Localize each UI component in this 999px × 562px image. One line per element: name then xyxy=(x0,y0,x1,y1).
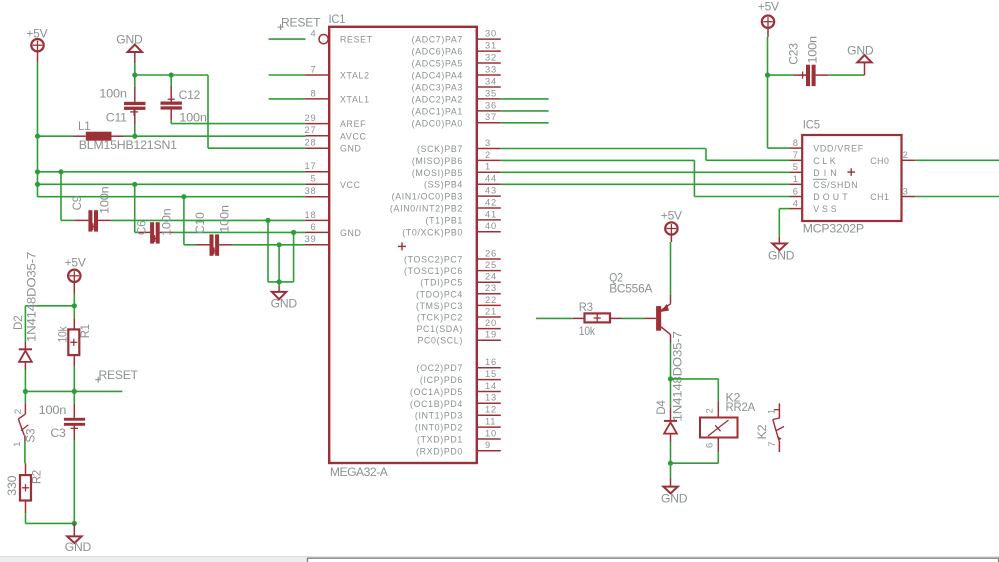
svg-text:16: 16 xyxy=(485,357,497,367)
svg-text:C11: C11 xyxy=(106,111,128,125)
wire VCC row38 xyxy=(38,196,306,198)
node junction collector/relay xyxy=(668,376,673,381)
svg-text:CS/SHDN: CS/SHDN xyxy=(813,180,858,190)
svg-text:(INT0)PD2: (INT0)PD2 xyxy=(415,423,463,433)
svg-text:13: 13 xyxy=(485,393,497,403)
svg-text:R3: R3 xyxy=(579,300,593,314)
svg-text:GND: GND xyxy=(65,540,92,554)
wire XTAL2 stub xyxy=(269,74,306,76)
ground GND (bottom left) xyxy=(65,523,92,554)
svg-text:15: 15 xyxy=(485,369,497,379)
svg-text:CH0: CH0 xyxy=(870,156,889,166)
node junction C23 xyxy=(765,73,770,78)
svg-text:VCC: VCC xyxy=(340,180,361,190)
svg-text:41: 41 xyxy=(485,209,497,219)
svg-text:14: 14 xyxy=(485,381,497,391)
diode D4 1N4148DO35-7 xyxy=(654,331,684,463)
svg-text:(TOSC1)PC6: (TOSC1)PC6 xyxy=(404,266,463,276)
svg-text:(INT1)PD3: (INT1)PD3 xyxy=(415,411,463,421)
svg-text:XTAL1: XTAL1 xyxy=(340,94,370,104)
svg-text:C6: C6 xyxy=(134,220,148,235)
svg-text:36: 36 xyxy=(485,100,497,110)
svg-text:(ADC7)PA7: (ADC7)PA7 xyxy=(412,35,463,45)
svg-text:(TCK)PC2: (TCK)PC2 xyxy=(417,313,463,323)
svg-text:(T1)PB1: (T1)PB1 xyxy=(425,215,463,225)
capacitor C9 xyxy=(61,172,306,232)
svg-text:GND: GND xyxy=(847,43,874,57)
svg-text:100n: 100n xyxy=(806,36,820,64)
svg-text:1: 1 xyxy=(12,441,22,447)
node junction C11/AVCC xyxy=(132,134,137,139)
inductor L1 BLM15HB121SN1 xyxy=(74,119,178,152)
svg-text:GND: GND xyxy=(661,491,688,505)
svg-text:(ICP)PD6: (ICP)PD6 xyxy=(420,375,463,385)
svg-text:XTAL2: XTAL2 xyxy=(340,71,370,81)
svg-text:(ADC5)PA5: (ADC5)PA5 xyxy=(412,59,463,69)
svg-text:R2: R2 xyxy=(30,470,44,484)
ground GND (top, mirrored) xyxy=(116,33,143,63)
svg-text:C23: C23 xyxy=(786,43,800,65)
svg-text:GND: GND xyxy=(340,144,362,154)
svg-text:3: 3 xyxy=(903,186,909,196)
svg-text:32: 32 xyxy=(485,52,497,62)
svg-text:31: 31 xyxy=(485,41,497,51)
transistor Q2 BC556A xyxy=(609,271,670,344)
svg-text:C3: C3 xyxy=(50,426,66,440)
svg-text:27: 27 xyxy=(305,125,317,135)
svg-text:10k: 10k xyxy=(56,325,70,342)
svg-text:100n: 100n xyxy=(99,86,127,100)
svg-text:100n: 100n xyxy=(179,111,207,125)
wire +5V down to IC5 VDD xyxy=(768,37,790,148)
svg-text:BC556A: BC556A xyxy=(609,282,652,296)
svg-text:25: 25 xyxy=(485,260,497,270)
wire to D2 xyxy=(25,306,74,342)
svg-text:GND: GND xyxy=(116,33,143,47)
svg-text:CLK: CLK xyxy=(813,156,836,166)
node RESET label (bottom) xyxy=(95,368,138,383)
scrollbar strip xyxy=(0,557,999,562)
svg-text:(TDO)PC4: (TDO)PC4 xyxy=(416,289,463,299)
svg-text:IC1: IC1 xyxy=(329,12,346,26)
node junction C3/gnd xyxy=(72,521,77,526)
svg-text:S3: S3 xyxy=(24,428,38,443)
capacitor C3 xyxy=(39,391,85,523)
svg-text:(ADC4)PA4: (ADC4)PA4 xyxy=(412,71,463,81)
svg-text:38: 38 xyxy=(305,186,317,196)
svg-text:(OC1A)PD5: (OC1A)PD5 xyxy=(410,387,463,397)
op-amp U_IC5 adc IC5 MCP3202P xyxy=(790,118,916,236)
wire VCC row17 xyxy=(38,171,306,173)
resistor R3 10k xyxy=(536,300,645,338)
diode D2 1N4148DO35-7 xyxy=(11,251,39,391)
capacitor C23 xyxy=(768,36,865,86)
svg-text:(OC2)PD7: (OC2)PD7 xyxy=(417,363,464,373)
switch S3 xyxy=(12,391,38,463)
svg-text:43: 43 xyxy=(485,186,497,196)
node junction row18/gnd xyxy=(265,218,270,223)
svg-text:GND: GND xyxy=(340,228,362,238)
svg-text:+5V: +5V xyxy=(65,256,86,270)
svg-text:2: 2 xyxy=(705,407,715,413)
svg-text:D2: D2 xyxy=(11,315,25,330)
svg-text:29: 29 xyxy=(305,113,317,123)
svg-text:(SCK)PB7: (SCK)PB7 xyxy=(417,144,463,154)
svg-text:IC5: IC5 xyxy=(803,118,820,132)
svg-text:(AIN1/OC0)PB3: (AIN1/OC0)PB3 xyxy=(392,192,463,202)
wire RESET row xyxy=(25,390,122,392)
svg-text:17: 17 xyxy=(305,161,317,171)
svg-text:+5V: +5V xyxy=(758,0,779,13)
wire GND top to C11/C12 xyxy=(134,63,136,75)
svg-text:PC0(SCL): PC0(SCL) xyxy=(417,336,463,346)
wire MISO to IC5 DOUT xyxy=(501,160,790,196)
svg-text:C9: C9 xyxy=(70,195,84,210)
svg-text:(ADC2)PA2: (ADC2)PA2 xyxy=(412,94,463,104)
svg-text:(OC1B)PD4: (OC1B)PD4 xyxy=(410,399,463,409)
svg-text:21: 21 xyxy=(485,306,497,316)
supply +5V (reset) xyxy=(65,256,86,294)
svg-text:7: 7 xyxy=(767,441,777,447)
svg-text:AREF: AREF xyxy=(340,119,366,129)
svg-text:100n: 100n xyxy=(39,403,66,417)
svg-text:8: 8 xyxy=(311,88,317,98)
wire CH0 out xyxy=(915,159,999,161)
svg-text:18: 18 xyxy=(305,210,317,220)
svg-text:(MISO)PB6: (MISO)PB6 xyxy=(412,156,463,166)
node junction +5V/VCC5 xyxy=(35,182,40,187)
node junction +5V/VCC17 xyxy=(35,169,40,174)
svg-text:42: 42 xyxy=(485,197,497,207)
svg-text:C12: C12 xyxy=(179,88,201,102)
node junction gnd bundle xyxy=(277,279,282,284)
svg-text:(TOSC2)PC7: (TOSC2)PC7 xyxy=(404,255,463,265)
svg-text:(ADC1)PA1: (ADC1)PA1 xyxy=(412,106,463,116)
svg-text:22: 22 xyxy=(485,295,497,305)
svg-text:1: 1 xyxy=(767,408,777,414)
svg-text:(ADC0)PA0: (ADC0)PA0 xyxy=(412,118,463,128)
svg-text:3: 3 xyxy=(485,138,491,148)
node junction C12 top xyxy=(169,72,174,77)
svg-text:RESET: RESET xyxy=(340,35,373,45)
svg-text:7: 7 xyxy=(793,150,799,160)
svg-text:RR2A: RR2A xyxy=(726,400,756,414)
wire VSS to gnd xyxy=(779,209,789,237)
svg-text:(RXD)PD0: (RXD)PD0 xyxy=(416,446,463,456)
ground GND (below MCU) xyxy=(271,282,298,311)
svg-text:4: 4 xyxy=(793,198,799,208)
node junction +5V/AVCC xyxy=(35,134,40,139)
wire C12 to AREF pin29 xyxy=(171,123,305,125)
svg-text:5: 5 xyxy=(793,162,799,172)
svg-text:33: 33 xyxy=(485,64,497,74)
switch K2 contact xyxy=(755,403,784,452)
svg-text:(ADC3)PA3: (ADC3)PA3 xyxy=(412,83,463,93)
svg-text:+5V: +5V xyxy=(661,209,682,223)
svg-text:C10: C10 xyxy=(193,212,207,234)
svg-text:12: 12 xyxy=(485,405,497,415)
svg-text:26: 26 xyxy=(485,248,497,258)
resistor R2 330 xyxy=(5,463,44,523)
wire AVCC left segment xyxy=(38,135,74,137)
wire RESET to pin4 xyxy=(269,38,306,40)
svg-text:9: 9 xyxy=(485,440,491,450)
wire AVCC to pin27 xyxy=(124,135,306,137)
ground GND (relay) xyxy=(661,463,688,505)
supply +5V (top right) xyxy=(758,0,779,37)
op-amp U_IC1 microcontroller IC1 MEGA32-A xyxy=(305,12,501,479)
svg-text:39: 39 xyxy=(305,234,317,244)
supply +5V (top left) xyxy=(26,27,47,63)
svg-text:37: 37 xyxy=(485,112,497,122)
wire gnd bus down to pin28 xyxy=(208,75,306,148)
svg-text:100n: 100n xyxy=(98,187,112,215)
svg-text:DIN: DIN xyxy=(813,168,837,178)
resistor R1 10k xyxy=(56,306,93,392)
node junction C11 top xyxy=(132,72,137,77)
node junction R1/reset row xyxy=(72,389,77,394)
svg-text:(AIN0/INT2)PB2: (AIN0/INT2)PB2 xyxy=(390,204,463,214)
svg-text:23: 23 xyxy=(485,283,497,293)
svg-text:L1: L1 xyxy=(78,119,91,133)
node RESET label (top) xyxy=(278,16,322,31)
svg-text:(TMS)PC3: (TMS)PC3 xyxy=(416,301,463,311)
svg-text:+5V: +5V xyxy=(26,27,47,41)
svg-text:44: 44 xyxy=(485,174,497,184)
wire PA2 pin35 xyxy=(501,98,549,100)
node junction row6/gnd xyxy=(291,230,296,235)
svg-text:19: 19 xyxy=(485,330,497,340)
wire bottom gnd row xyxy=(26,522,75,524)
svg-text:6: 6 xyxy=(311,222,317,232)
svg-text:2: 2 xyxy=(485,150,491,160)
node junction row39/gnd xyxy=(277,242,282,247)
wire MOSI to IC5 DIN xyxy=(501,171,790,173)
svg-text:R1: R1 xyxy=(78,324,92,338)
svg-text:PC1(SDA): PC1(SDA) xyxy=(417,324,464,334)
svg-text:MEGA32-A: MEGA32-A xyxy=(330,465,388,479)
svg-text:11: 11 xyxy=(485,417,496,427)
svg-text:MCP3202P: MCP3202P xyxy=(803,222,864,236)
svg-text:35: 35 xyxy=(485,88,497,98)
wire top gnd bus xyxy=(135,74,208,76)
svg-text:100n: 100n xyxy=(217,205,231,233)
relay K2 RR2A coil xyxy=(671,379,756,463)
svg-text:20: 20 xyxy=(485,318,497,328)
svg-text:GND: GND xyxy=(271,297,298,311)
svg-text:330: 330 xyxy=(5,475,19,496)
svg-text:(TXD)PD1: (TXD)PD1 xyxy=(417,435,463,445)
node junction reset top xyxy=(72,303,77,308)
svg-text:D4: D4 xyxy=(654,400,668,415)
svg-text:2: 2 xyxy=(13,408,23,414)
node junction D2/reset row xyxy=(23,389,28,394)
svg-text:7: 7 xyxy=(311,64,317,74)
svg-text:10k: 10k xyxy=(579,324,596,338)
svg-text:1: 1 xyxy=(793,174,799,184)
svg-text:(MOSI)PB5: (MOSI)PB5 xyxy=(412,168,463,178)
svg-text:30: 30 xyxy=(485,29,497,39)
wire Q2 collector down xyxy=(670,343,672,379)
node junction row5/C6 xyxy=(132,182,137,187)
svg-text:5: 5 xyxy=(311,174,317,184)
wire +5V rail vertical xyxy=(37,62,39,197)
ground GND (near C23, mirrored) xyxy=(847,43,874,75)
svg-text:K2: K2 xyxy=(755,424,769,439)
node junction row38/C10 xyxy=(181,194,186,199)
svg-text:(SS)PB4: (SS)PB4 xyxy=(424,180,463,190)
svg-text:(ADC6)PA6: (ADC6)PA6 xyxy=(412,47,463,57)
svg-text:2: 2 xyxy=(903,150,909,160)
svg-text:10: 10 xyxy=(485,428,497,438)
wire VCC row5 xyxy=(38,183,306,185)
wire SCK to IC5 CLK xyxy=(501,149,790,161)
wire CH1 out xyxy=(915,196,999,198)
wire SS to IC5 CS xyxy=(501,183,790,185)
svg-text:6: 6 xyxy=(705,442,715,448)
node junction row17/C9 xyxy=(58,169,63,174)
svg-text:VDD/VREF: VDD/VREF xyxy=(813,144,864,154)
wire +5V reset down xyxy=(73,294,75,306)
svg-text:(T0/XCK)PB0: (T0/XCK)PB0 xyxy=(402,227,463,237)
svg-text:6: 6 xyxy=(793,186,799,196)
capacitor C6 xyxy=(134,184,305,243)
svg-text:40: 40 xyxy=(485,221,497,231)
svg-text:4: 4 xyxy=(311,29,317,39)
svg-text:CH1: CH1 xyxy=(870,192,889,202)
wire XTAL1 stub xyxy=(269,98,306,100)
supply +5V (Q2) xyxy=(661,209,682,243)
svg-text:(TDI)PC5: (TDI)PC5 xyxy=(420,278,463,288)
wire PA1 pin36 xyxy=(501,110,549,112)
wire gnd bundle xyxy=(268,220,294,282)
capacitor C11 xyxy=(99,75,145,136)
wire PA0 pin37 xyxy=(501,122,549,124)
capacitor C12 xyxy=(161,75,207,125)
svg-text:AVCC: AVCC xyxy=(340,131,367,141)
svg-text:24: 24 xyxy=(485,272,497,282)
svg-text:1N4148DO35-7: 1N4148DO35-7 xyxy=(670,331,684,422)
ground GND (IC5) xyxy=(768,237,795,263)
svg-text:8: 8 xyxy=(793,138,799,148)
svg-text:100n: 100n xyxy=(160,209,174,237)
svg-text:RESET: RESET xyxy=(99,368,139,382)
wire +5V to Q2 emitter xyxy=(670,242,672,295)
svg-text:28: 28 xyxy=(305,138,317,148)
svg-text:VSS: VSS xyxy=(813,204,837,214)
capacitor C10 xyxy=(184,197,306,256)
svg-text:BLM15HB121SN1: BLM15HB121SN1 xyxy=(79,138,178,152)
svg-text:1: 1 xyxy=(485,162,491,172)
svg-text:1N4148DO35-7: 1N4148DO35-7 xyxy=(25,251,39,342)
svg-text:34: 34 xyxy=(485,76,497,86)
svg-text:GND: GND xyxy=(768,249,795,263)
svg-text:RESET: RESET xyxy=(281,16,321,30)
node junction D4/relay bottom xyxy=(668,461,673,466)
